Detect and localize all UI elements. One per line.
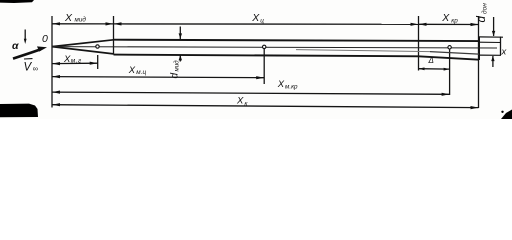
svg-text:X: X [128, 65, 136, 76]
svg-text:мид: мид [174, 60, 181, 72]
svg-text:м.кр: м.кр [285, 84, 298, 91]
svg-text:X: X [441, 12, 450, 24]
svg-text:α: α [12, 40, 19, 52]
svg-text:дон: дон [480, 3, 488, 14]
svg-text:кр: кр [451, 18, 458, 25]
svg-text:d: d [170, 73, 181, 79]
svg-text:X: X [236, 95, 244, 106]
svg-text:V: V [24, 62, 33, 74]
svg-text:d: d [476, 16, 488, 23]
svg-text:м.г: м.г [71, 57, 82, 64]
svg-text:X: X [63, 54, 71, 65]
svg-text:м.ц: м.ц [136, 69, 146, 76]
svg-text:мид: мид [75, 16, 87, 24]
svg-text:0: 0 [42, 33, 48, 45]
svg-text:X: X [64, 12, 73, 24]
svg-text:Δ: Δ [428, 56, 434, 65]
svg-text:X: X [251, 12, 260, 24]
svg-text:∞: ∞ [33, 64, 38, 73]
svg-text:ц: ц [260, 17, 264, 24]
svg-text:X: X [277, 79, 285, 90]
